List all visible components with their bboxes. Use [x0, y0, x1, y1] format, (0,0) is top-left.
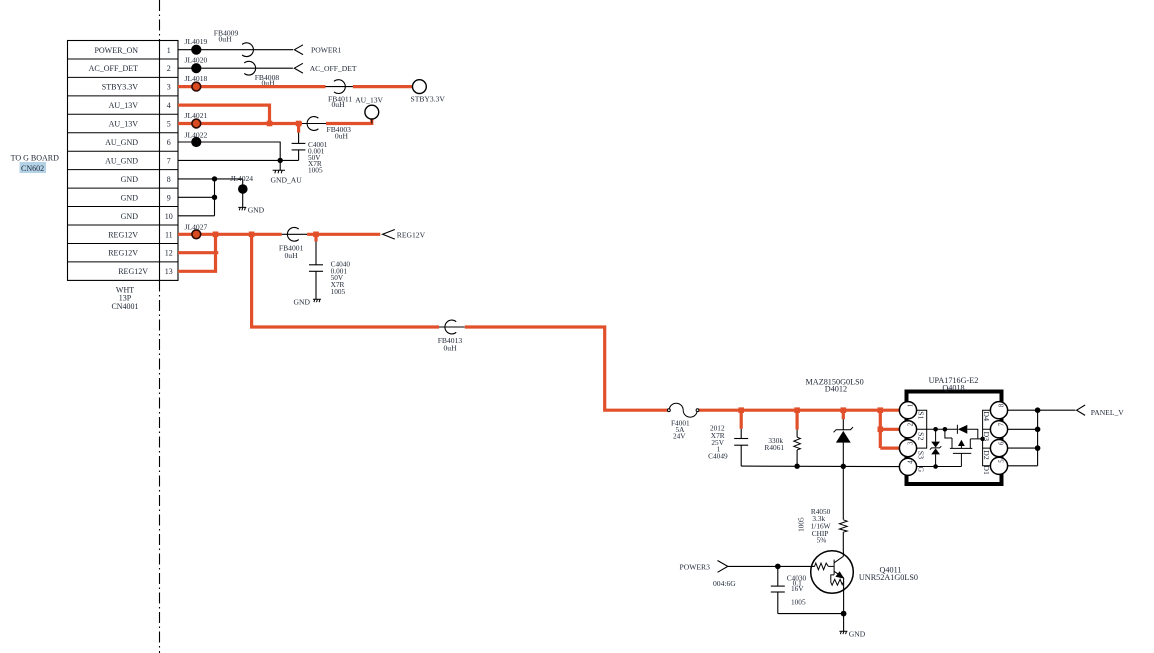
svg-text:GND: GND: [248, 206, 265, 215]
ferrite bead FB4009 0uH: [214, 29, 254, 57]
svg-text:2: 2: [167, 64, 171, 73]
junction D4012 bottom: [841, 464, 846, 469]
svg-text:CN4001: CN4001: [111, 302, 138, 311]
resistor R4050 3.3k 1/16W CHIP 5%: [796, 466, 847, 551]
connector CN4001 table: [68, 41, 179, 281]
wire S2/S3 drop (orange): [880, 410, 900, 448]
svg-text:S1: S1: [916, 411, 925, 419]
svg-text:S2: S2: [916, 432, 925, 440]
svg-text:4: 4: [167, 101, 171, 110]
Q4018 internal MOSFET: [950, 437, 985, 467]
svg-text:D2: D2: [982, 450, 991, 460]
svg-text:1005: 1005: [331, 287, 346, 296]
wire pin2 to AC_OFF_DET: [178, 67, 293, 69]
svg-text:REG12V: REG12V: [108, 249, 138, 258]
svg-text:POWER3: POWER3: [680, 563, 711, 572]
Q4018 pin 8: [990, 402, 1007, 419]
Q4018 pin 7: [990, 421, 1007, 438]
off-page arrow POWER1: [294, 45, 341, 55]
zener diode D4012 MAZ8150G0LS0: [806, 378, 864, 467]
svg-text:AU_13V: AU_13V: [355, 95, 383, 104]
svg-text:GND: GND: [849, 630, 866, 639]
capacitor C4049 2012 X7R 25V 1: [708, 410, 748, 466]
svg-text:REG12V: REG12V: [108, 230, 138, 239]
svg-text:D3: D3: [982, 432, 991, 442]
ground GND_AU: [271, 160, 303, 184]
svg-text:6: 6: [998, 441, 1005, 445]
centerline dash-dot (board boundary): [159, 0, 161, 653]
svg-text:C4049: C4049: [708, 451, 728, 460]
ground GND (pin8 net): [238, 206, 264, 215]
svg-text:JL4018: JL4018: [185, 74, 208, 83]
svg-text:7: 7: [998, 422, 1005, 426]
svg-text:4: 4: [907, 460, 914, 464]
jumper JL4019: [185, 37, 208, 55]
svg-text:11: 11: [165, 230, 173, 239]
FET array U Q4018 UPA1716G-E2 package body: [907, 376, 1002, 484]
svg-text:GND: GND: [121, 212, 139, 221]
svg-text:5: 5: [998, 459, 1005, 463]
svg-text:AU_GND: AU_GND: [105, 138, 138, 147]
svg-text:CN602: CN602: [21, 164, 44, 173]
svg-text:AU_13V: AU_13V: [109, 101, 139, 110]
junction pin6 bus: [1035, 445, 1041, 451]
svg-text:GND: GND: [294, 298, 311, 307]
ferrite bead FB4008 0uH: [244, 61, 279, 87]
junction main rail tap: [249, 232, 255, 238]
wire gnd bus pins 8-10: [214, 179, 216, 216]
off-page arrow POWER3: [680, 561, 737, 589]
svg-text:13: 13: [165, 267, 173, 276]
wire pin1 to POWER1: [178, 49, 293, 51]
terminal AU_13V: [355, 95, 383, 119]
svg-text:AU_GND: AU_GND: [105, 157, 138, 166]
junction C4001 tap: [296, 121, 302, 127]
junction S pins drop: [878, 407, 884, 413]
wire POWER3 to Q4011 base: [728, 565, 815, 567]
svg-text:POWER1: POWER1: [311, 46, 342, 55]
svg-text:0uH: 0uH: [219, 34, 233, 43]
jumper JL4027: [185, 222, 208, 238]
wire emitter to gnd: [778, 613, 844, 615]
wire pin4 AU_13V (orange): [178, 105, 270, 123]
wire pins 12-13 bus (orange): [178, 234, 218, 271]
svg-text:D4: D4: [982, 411, 991, 421]
wire pin7 AU_GND: [178, 159, 299, 161]
svg-text:0uH: 0uH: [444, 343, 458, 352]
Q4018 internal body diode: [957, 425, 982, 439]
svg-text:24V: 24V: [673, 432, 686, 441]
junction pin9: [212, 195, 217, 200]
junction pin7 bus: [1035, 427, 1041, 433]
svg-text:Q4018: Q4018: [942, 383, 964, 392]
Q4018 internal gate net: [917, 429, 962, 466]
jumper JL4022: [185, 131, 208, 147]
junction pin8 bus: [1035, 407, 1041, 413]
Q4018 pin 4: [899, 458, 916, 475]
Q4018 pin 1: [899, 402, 916, 419]
jumper JL4021: [185, 111, 208, 128]
jumper JL4020: [185, 56, 208, 74]
transistor Q4011 UNR52A1G0LS0: [811, 551, 918, 614]
svg-text:STBY3.3V: STBY3.3V: [102, 83, 138, 92]
svg-text:6: 6: [167, 138, 171, 147]
svg-text:3: 3: [907, 441, 914, 445]
jumper JL4018: [185, 74, 208, 91]
connector row labels: [89, 46, 149, 276]
wire main 12V rail (orange): [252, 235, 900, 410]
Q4018 internal S bracket: [917, 410, 958, 448]
connector pin numbers: [165, 46, 173, 276]
svg-text:D1: D1: [982, 465, 991, 475]
svg-text:R4061: R4061: [765, 443, 785, 452]
svg-text:5: 5: [167, 120, 171, 129]
svg-text:JL4019: JL4019: [185, 37, 208, 46]
svg-text:3: 3: [167, 83, 171, 92]
svg-text:G: G: [916, 466, 925, 472]
junction S2 stub: [878, 427, 884, 433]
svg-text:GND: GND: [121, 193, 139, 202]
svg-text:JL4022: JL4022: [185, 131, 208, 140]
wire G/gnd rail: [741, 465, 900, 468]
junction C4049 tap: [738, 407, 744, 413]
wire drain bus to PANEL_V: [1008, 410, 1076, 466]
junction pin8: [212, 176, 217, 181]
svg-text:1005: 1005: [308, 166, 323, 175]
off-page arrow REG12V: [383, 230, 426, 240]
label WHT 13P CN4001: [111, 286, 138, 311]
svg-text:10: 10: [165, 212, 173, 221]
svg-text:JL4024: JL4024: [230, 174, 253, 183]
Q4018 pin 5: [990, 457, 1007, 474]
svg-text:UNR52A1G0LS0: UNR52A1G0LS0: [859, 573, 918, 582]
svg-text:5%: 5%: [817, 535, 827, 544]
svg-text:004:6G: 004:6G: [713, 579, 736, 588]
wire pin3 STBY3.3V net (orange): [178, 85, 414, 88]
Q4018 pin 3: [899, 440, 916, 457]
junction C4040 tap: [313, 232, 319, 238]
wire pin11 REG12V (orange): [178, 233, 380, 236]
svg-text:GND: GND: [121, 175, 139, 184]
svg-text:TO G BOARD: TO G BOARD: [11, 154, 60, 163]
Q4018 internal D bracket: [983, 410, 991, 466]
svg-text:8: 8: [167, 175, 171, 184]
capacitor C4040 0.001 50V X7R 1005: [309, 234, 350, 299]
svg-text:PANEL_V: PANEL_V: [1091, 408, 1125, 417]
junction D4012 tap: [841, 407, 847, 413]
svg-text:AC_OFF_DET: AC_OFF_DET: [310, 64, 357, 73]
svg-text:JL4021: JL4021: [185, 111, 208, 120]
jumper JL4024: [230, 174, 253, 207]
terminal STBY3.3V: [411, 80, 446, 104]
svg-text:0uH: 0uH: [285, 251, 299, 260]
Q4018 internal protection zener: [930, 427, 947, 469]
ferrite bead FB4001 0uH: [279, 227, 304, 260]
svg-text:JL4020: JL4020: [185, 56, 208, 65]
svg-text:REG12V: REG12V: [397, 231, 426, 240]
ground GND (C4040): [294, 298, 321, 307]
svg-text:1005: 1005: [791, 598, 806, 607]
junction R4061 bottom: [794, 464, 799, 469]
off-page arrow AC_OFF_DET: [294, 63, 357, 73]
svg-text:16V: 16V: [791, 584, 804, 593]
wire pin9 GND: [178, 196, 215, 198]
off-page arrow PANEL_V: [1077, 405, 1125, 417]
junction R4061 tap: [794, 407, 800, 413]
svg-text:9: 9: [167, 193, 171, 202]
wire pin6 AU_GND: [178, 142, 280, 160]
junction pin6/pin7: [278, 158, 283, 163]
svg-text:1: 1: [907, 404, 914, 407]
ferrite bead FB4003 0uH: [307, 117, 351, 141]
junction C4030 tap: [775, 564, 781, 570]
svg-text:7: 7: [167, 157, 171, 166]
svg-text:D4012: D4012: [825, 385, 847, 394]
capacitor C4001 0.001 50V X7R 1005: [292, 124, 328, 175]
ferrite bead FB4013 0uH: [438, 320, 463, 352]
svg-text:12: 12: [165, 249, 173, 258]
svg-text:JL4027: JL4027: [185, 222, 208, 231]
wire pin8 GND: [178, 178, 243, 180]
svg-text:AC_OFF_DET: AC_OFF_DET: [89, 64, 138, 73]
wire pin5 AU_13V (orange): [178, 119, 372, 125]
svg-text:1: 1: [167, 46, 171, 55]
svg-text:2: 2: [907, 422, 914, 426]
svg-text:STBY3.3V: STBY3.3V: [411, 94, 446, 103]
resistor R4061 330k: [765, 410, 801, 466]
junction pin12/13 bus: [213, 232, 219, 238]
wire pin10 GND: [178, 215, 215, 217]
junction pin4/pin5: [267, 121, 273, 127]
node CN602 (highlighted): [20, 162, 47, 173]
svg-text:8: 8: [998, 403, 1005, 407]
svg-text:REG12V: REG12V: [118, 267, 148, 276]
Q4018 pin 6: [990, 440, 1007, 457]
svg-text:0uH: 0uH: [335, 131, 349, 140]
Q4018 pin 2: [899, 421, 916, 438]
svg-text:GND_AU: GND_AU: [271, 176, 303, 185]
svg-text:S3: S3: [916, 451, 925, 459]
ferrite bead FB4011 0uH: [328, 80, 352, 109]
svg-text:POWER_ON: POWER_ON: [94, 46, 138, 55]
svg-text:AU_13V: AU_13V: [109, 120, 139, 129]
fuse F4001 5A 24V: [668, 403, 699, 440]
svg-text:0uH: 0uH: [332, 100, 346, 109]
junction emitter/gnd: [841, 611, 847, 617]
capacitor C4030 0.1 16V 1005: [771, 566, 807, 613]
svg-text:1005: 1005: [796, 517, 805, 532]
ground GND (Q4011): [839, 614, 865, 639]
